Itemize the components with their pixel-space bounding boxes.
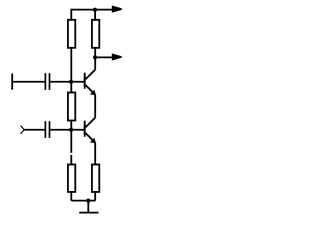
terminal input bar left: [11, 74, 13, 90]
wire base node 2 down lower segment: [70, 155, 72, 165]
connector output arrow middle: [112, 53, 122, 60]
resistor R3: [68, 93, 75, 121]
wire Q1 emitter to Q2 collector: [94, 95, 96, 118]
wire base node to R3 top: [70, 82, 72, 93]
wire C1 to Q1 base: [50, 81, 84, 83]
ground: [79, 201, 98, 213]
resistor R1: [68, 20, 75, 48]
wire bottom rail: [71, 200, 95, 202]
resistor R2: [92, 20, 99, 48]
capacitor C2 plate left: [44, 121, 46, 138]
wire input 2 to C2: [24, 129, 44, 131]
transistor Q2: [84, 121, 86, 137]
wire Q1 collector diagonal: [85, 70, 95, 80]
wire R5 bottom drop: [94, 192, 96, 201]
node VCC junction dot: [93, 8, 97, 12]
capacitor C2 plate right: [49, 121, 51, 138]
wire Q2 emitter arrowhead: [90, 138, 96, 143]
wire R1 bottom to base node: [70, 48, 72, 82]
wire base node 2 down upper segment: [70, 130, 72, 153]
wire Q1 emitter diagonal: [85, 85, 95, 95]
wire dot to R2 top: [94, 10, 96, 20]
connector output arrow top: [112, 6, 122, 13]
node collector Q1 junction dot: [93, 55, 97, 59]
wire R2 bottom to node: [94, 48, 96, 58]
wire R3 bottom to base node 2: [70, 121, 72, 130]
wire top rail: [71, 9, 114, 11]
wire Q2 emitter to R5 top: [94, 143, 96, 165]
wire Q2 emitter diagonal: [85, 133, 95, 143]
resistor R4: [68, 165, 75, 192]
resistor R5: [92, 165, 99, 192]
capacitor C1 plate left: [44, 73, 46, 90]
wire input 1 to C1: [12, 81, 45, 83]
capacitor C1 plate right: [49, 73, 51, 90]
terminal input chevron: [21, 126, 25, 134]
transistor Q1: [84, 73, 86, 89]
wire Q2 collector diagonal: [85, 118, 95, 128]
wire R4 bottom drop: [70, 192, 72, 201]
node ground junction dot: [86, 199, 90, 203]
wire corner drop to R1: [70, 9, 72, 20]
node Q1 base junction dot: [69, 80, 73, 84]
wire C2 to Q2 base: [50, 129, 84, 131]
node Q2 base junction dot: [69, 128, 73, 132]
wire node down to Q1 collector corner: [94, 57, 96, 69]
wire node to output arrow 2: [95, 56, 114, 58]
wire Q1 emitter arrowhead: [90, 90, 96, 95]
